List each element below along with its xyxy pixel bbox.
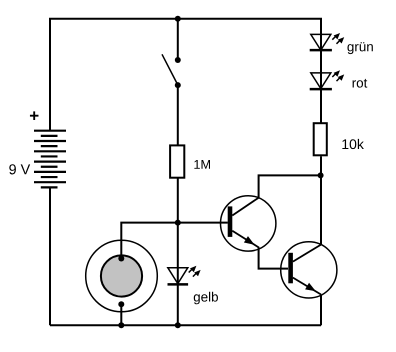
label rot bbox=[353, 79, 368, 88]
wire resistor 1M to node A bbox=[177, 179, 179, 223]
label 1M bbox=[194, 160, 210, 169]
wire T2 emitter to bottom rail bbox=[320, 295, 322, 326]
LED rot symbol bbox=[310, 71, 344, 89]
label gruen bbox=[347, 42, 372, 54]
wire switch to resistor 1M bbox=[177, 85, 179, 145]
transistor T2 bbox=[281, 242, 337, 298]
wire resistor 10k to collector junction bbox=[320, 156, 322, 175]
resistor 1M body bbox=[170, 145, 184, 177]
wire top rail right segment and corner down to LED gruen bbox=[178, 19, 321, 124]
label 9 V bbox=[9, 164, 30, 174]
node gelb on bottom rail bbox=[175, 322, 181, 328]
wire junction left and down to transistor T1 collector bbox=[259, 175, 321, 197]
LED gruen symbol bbox=[310, 34, 344, 50]
wire switch upper lead bbox=[177, 19, 179, 60]
wire left rail: battery plus up and along top rail to switch node bbox=[50, 19, 178, 131]
LED gelb symbol bbox=[168, 267, 200, 285]
label gelb bbox=[194, 292, 218, 304]
resistor 10k body bbox=[314, 123, 327, 155]
label 10k bbox=[342, 139, 364, 149]
touch sensor electrode bbox=[86, 240, 158, 312]
wire node A right to transistor T1 base bbox=[178, 222, 228, 224]
label battery plus bbox=[30, 111, 39, 120]
wire node A down to LED gelb bbox=[177, 223, 179, 326]
node sensor on bottom rail bbox=[118, 322, 124, 328]
node junction top rail at switch branch bbox=[175, 16, 181, 22]
wire battery minus to bottom rail bbox=[49, 187, 51, 325]
wire sensor bottom plate to bottom rail bbox=[120, 304, 122, 325]
wire bottom rail bbox=[50, 324, 321, 326]
wire node A left to sensor top plate bbox=[121, 223, 178, 259]
node A: base node junction bbox=[175, 220, 181, 226]
node collector junction bbox=[318, 172, 324, 178]
transistor T1 bbox=[221, 196, 276, 251]
wire T1 emitter down and right to T2 base bbox=[259, 247, 288, 268]
battery 9V plates bbox=[34, 131, 66, 188]
wire junction down to transistor T2 collector bbox=[320, 175, 322, 245]
switch S1 (open) bbox=[162, 54, 181, 88]
